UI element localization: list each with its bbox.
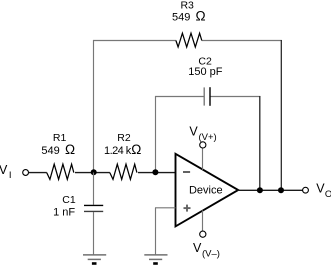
wire: non-inverting input horizontal: [155, 207, 176, 209]
svg-text:(V–): (V–): [202, 248, 220, 259]
resistor R3: [176, 33, 202, 47]
node B junction dot: [152, 169, 158, 175]
svg-text:Device: Device: [189, 184, 223, 196]
node C junction dot: [257, 187, 263, 193]
svg-text:1.24 kΩ: 1.24 kΩ: [104, 142, 141, 157]
op-amp U1 triangle: [176, 154, 239, 227]
svg-text:549Ω: 549Ω: [172, 8, 206, 23]
wire: C2 right vertical down to output node C: [259, 96, 261, 190]
svg-text:I: I: [9, 170, 12, 181]
node D junction dot: [278, 187, 284, 193]
op-amp inverting input marker (minus): [183, 171, 190, 173]
op-amp non-inverting input marker (plus): [184, 207, 191, 209]
wire: V+ supply stub: [202, 148, 204, 170]
svg-text:V: V: [0, 163, 8, 177]
wire: R2 to op-amp inverting input: [138, 172, 176, 174]
wire: R3 feedback top-left horizontal: [93, 40, 176, 42]
wire: input terminal to R1: [29, 172, 47, 174]
terminal V- circle: [200, 231, 206, 237]
wire: R3 feedback top-right horizontal: [202, 40, 282, 42]
capacitor C2 plates: [203, 87, 205, 105]
svg-text:R3: R3: [180, 0, 194, 12]
svg-text:O: O: [325, 189, 331, 200]
wire: C1 vertical from node A: [93, 173, 95, 205]
resistor R2: [110, 164, 137, 179]
svg-text:(V+): (V+): [199, 132, 217, 143]
terminal VI input circle: [23, 170, 29, 176]
wire: C1 to ground G1: [93, 212, 95, 255]
svg-text:V: V: [189, 124, 198, 138]
wire: R1 to node A: [75, 172, 110, 174]
svg-text:C1: C1: [62, 194, 76, 206]
wire: C2 top-left horizontal: [155, 96, 204, 98]
wire: C2 top-right horizontal: [210, 96, 260, 98]
wire: non-inverting input down to ground G2: [155, 208, 157, 255]
terminal V+ circle: [200, 142, 206, 148]
wire: V- supply stub: [202, 210, 204, 231]
wire: R3 feedback right vertical down to output node D: [280, 40, 282, 190]
svg-text:V: V: [193, 241, 202, 255]
svg-text:1 nF: 1 nF: [53, 207, 75, 219]
wire: op-amp output: [238, 189, 303, 191]
svg-text:150 pF: 150 pF: [188, 66, 223, 78]
svg-text:R2: R2: [117, 132, 131, 144]
node A junction dot: [91, 169, 97, 175]
ground G1 below C1: [83, 254, 106, 256]
wire: R3 feedback left vertical from node A: [93, 40, 95, 173]
capacitor C1 plates: [84, 204, 103, 206]
wire: C2 feedback left vertical from node B: [155, 96, 157, 173]
svg-text:549Ω: 549Ω: [41, 142, 75, 157]
resistor R1: [47, 164, 74, 179]
svg-text:V: V: [316, 182, 325, 196]
terminal VO output circle: [303, 187, 309, 193]
ground G2 at non-inverting input: [144, 254, 167, 256]
